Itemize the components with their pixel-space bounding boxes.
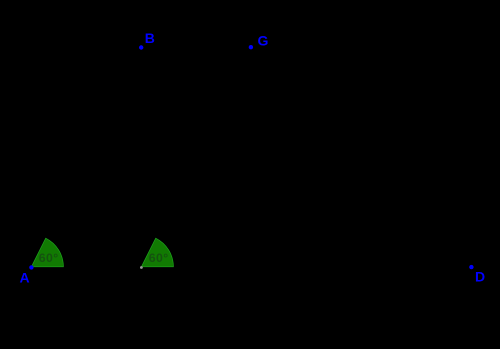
svg-text:60°: 60° — [149, 251, 169, 265]
svg-text:G: G — [258, 33, 269, 49]
svg-text:60°: 60° — [39, 251, 59, 265]
svg-text:D: D — [475, 268, 485, 284]
svg-text:B: B — [145, 30, 155, 46]
svg-text:A: A — [20, 270, 30, 286]
